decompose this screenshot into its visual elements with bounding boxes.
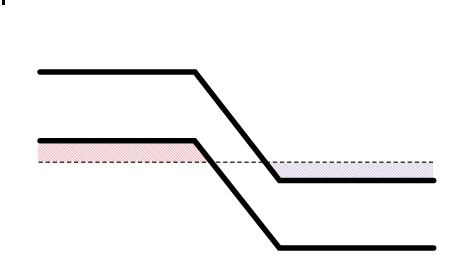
cropped label fragment top-left <box>2 0 5 5</box>
hatched region left (pink, between upper band and Fermi level) <box>38 144 212 162</box>
hatched region right (lavender, between Fermi level and lower band) <box>266 163 434 178</box>
upper band edge (thick stepped line) <box>40 72 434 181</box>
lower band edge (thick stepped line) <box>40 141 434 248</box>
Fermi level (dashed line) <box>39 161 434 163</box>
